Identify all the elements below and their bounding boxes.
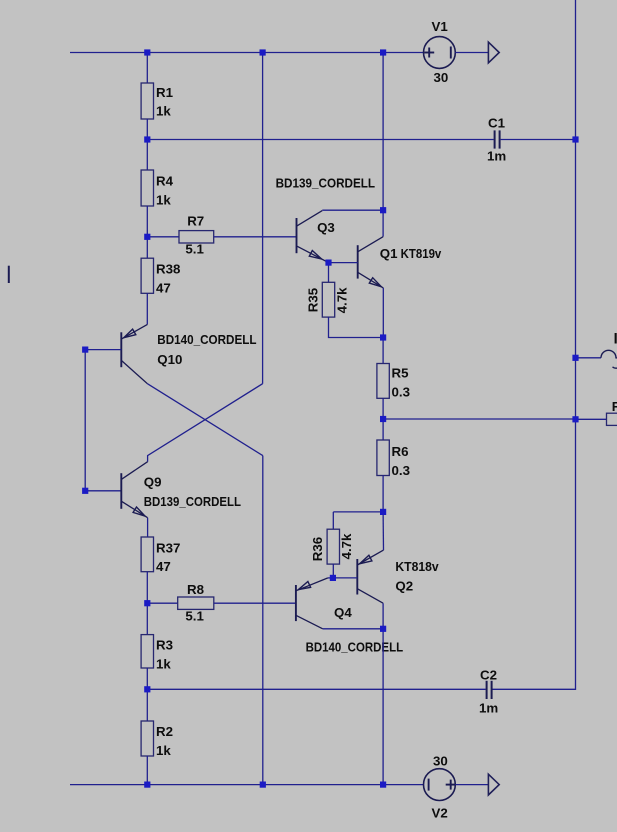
svg-text:R1: R1	[156, 85, 174, 100]
wire bottom -30V rail	[70, 784, 424, 786]
svg-text:1k: 1k	[156, 657, 171, 672]
node C1 row / right rail	[572, 136, 578, 142]
wire cross A (Q10 collector to colB)	[147, 384, 262, 456]
resistor R2	[141, 721, 153, 756]
wire right rail (top)	[575, 0, 577, 140]
node Q3 collector / colC	[380, 207, 386, 213]
svg-text:R36: R36	[310, 537, 325, 561]
svg-text:Q1: Q1	[380, 246, 398, 261]
wire Q2 collector down	[382, 603, 384, 629]
svg-text:C1: C1	[488, 116, 506, 131]
ground port (V2)	[488, 774, 499, 795]
node top rail / colA	[144, 49, 150, 55]
wire colB upper	[262, 53, 264, 384]
node Q2 emitter / R36	[380, 509, 386, 515]
node bottom rail / colB	[260, 782, 266, 788]
label L fragment at edge	[615, 333, 617, 344]
wire C1 row right	[501, 139, 576, 141]
svg-text:Q2: Q2	[395, 579, 413, 594]
resistor R3	[141, 635, 153, 668]
wire Q2 base	[333, 577, 357, 579]
node bottom rail / colA	[144, 782, 150, 788]
wire colA top	[146, 53, 148, 84]
inductor L (partial at edge)	[601, 350, 617, 368]
wire right rail (mid1)	[575, 140, 577, 358]
svg-text:R5: R5	[392, 366, 410, 381]
wire Q3 emitter to Q1 base	[329, 262, 358, 264]
wire right rail (bottom)	[492, 419, 576, 689]
svg-text:BD139_CORDELL: BD139_CORDELL	[144, 494, 241, 509]
svg-text:R35: R35	[306, 287, 321, 312]
svg-text:1k: 1k	[156, 193, 171, 208]
node C1 row / colA	[144, 136, 150, 142]
svg-text:0.3: 0.3	[392, 385, 411, 400]
svg-text:BD139_CORDELL: BD139_CORDELL	[276, 175, 376, 190]
svg-text:1k: 1k	[156, 743, 171, 758]
svg-text:R2: R2	[156, 724, 173, 739]
wire to load resistor	[576, 418, 607, 420]
svg-text:C2: C2	[480, 668, 497, 683]
svg-text:1m: 1m	[487, 149, 506, 164]
node output / right rail	[572, 416, 578, 422]
wire Q10 base	[85, 349, 121, 351]
node output / colC	[380, 416, 386, 422]
wire R7node to R38	[146, 237, 148, 258]
wire Q10 base to Q9 base	[84, 350, 86, 491]
wire top +30V rail	[70, 52, 424, 54]
node Q4 collector / colC	[380, 626, 386, 632]
wire R36 bottom	[332, 564, 334, 578]
svg-text:1m: 1m	[479, 701, 498, 716]
wire colC top	[382, 53, 384, 211]
node bottom rail / colC	[380, 782, 386, 788]
svg-text:Q3: Q3	[317, 220, 335, 235]
wire V1 to port	[455, 52, 488, 54]
node Q2 base / R36	[330, 575, 336, 581]
node top rail / colB	[260, 49, 266, 55]
svg-text:BD140_CORDELL: BD140_CORDELL	[157, 332, 256, 347]
node Q1 base	[325, 260, 331, 266]
node C2 row / colA	[144, 686, 150, 692]
wire Q4 collector row	[323, 628, 383, 630]
wire R38 to Q10 emitter	[146, 293, 148, 324]
wire right rail (mid2)	[575, 358, 577, 419]
wire R8 to Q4 base	[214, 602, 296, 604]
svg-text:4.7k: 4.7k	[335, 287, 350, 313]
svg-text:47: 47	[156, 281, 171, 296]
wire colC bottom	[382, 629, 384, 785]
svg-text:30: 30	[434, 70, 449, 85]
svg-text:5.1: 5.1	[185, 609, 204, 624]
svg-text:R38: R38	[156, 262, 180, 277]
resistor R8	[178, 597, 214, 609]
node R7 row / colA	[144, 234, 150, 240]
wire C2 row left	[147, 688, 485, 690]
transistor Q3	[297, 211, 329, 263]
svg-text:Q10: Q10	[157, 352, 182, 367]
wire output row	[383, 418, 575, 420]
wire output node to R6	[382, 419, 384, 440]
wire R37 to R8 node	[146, 572, 148, 604]
node Q9 base	[82, 488, 88, 494]
voltage source V1	[424, 37, 456, 69]
resistor R37	[141, 537, 153, 572]
wire R8node to R3	[146, 603, 148, 634]
resistor R35	[322, 282, 334, 317]
svg-text:V1: V1	[432, 19, 449, 34]
svg-text:1k: 1k	[156, 104, 171, 119]
wire colB lower	[262, 456, 264, 785]
wire R4 to R7 node	[146, 206, 148, 237]
resistor R6	[377, 440, 389, 476]
node top rail / colC	[380, 49, 386, 55]
wire V2 to port	[455, 784, 488, 786]
svg-text:0.3: 0.3	[392, 463, 411, 478]
node Q1 emitter / R35	[380, 334, 386, 340]
svg-text:5.1: 5.1	[185, 242, 204, 257]
resistor R7	[179, 231, 214, 243]
transistor Q10	[121, 324, 147, 383]
resistor R38	[141, 258, 153, 293]
resistor R5	[377, 364, 389, 399]
svg-text:R: R	[612, 399, 617, 414]
svg-text:R7: R7	[187, 214, 204, 229]
wire R36 top row	[333, 511, 383, 513]
wire C1 row left	[147, 139, 493, 141]
wire Q9 emitter to R37	[147, 518, 149, 537]
wire R7 row left	[147, 236, 179, 238]
wire R35 bottom	[329, 317, 384, 337]
svg-text:KT819v: KT819v	[401, 246, 442, 261]
ground port (V1)	[488, 42, 499, 63]
wire R2 to bottom rail	[146, 756, 148, 785]
capacitor C2	[486, 681, 488, 699]
transistor Q4	[296, 578, 328, 629]
svg-text:R6: R6	[392, 444, 409, 459]
wire R35node to R5	[382, 338, 384, 364]
resistor R (load, partial)	[607, 413, 617, 425]
wire R6 to Q2 emitter node	[382, 476, 384, 512]
svg-text:4.7k: 4.7k	[339, 533, 354, 559]
transistor Q1	[358, 237, 384, 288]
wire Q3 collector	[322, 209, 383, 211]
resistor R36	[327, 529, 339, 564]
wire stub at left edge	[8, 266, 10, 283]
wire R1 to C1 node	[146, 119, 148, 140]
node inductor / right rail	[572, 355, 578, 361]
svg-text:Q4: Q4	[334, 605, 352, 620]
svg-text:V2: V2	[432, 806, 448, 821]
wire R8 row left	[147, 602, 177, 604]
wire R7 to Q3 base	[214, 236, 297, 238]
wire Q2 emitter up	[382, 512, 384, 550]
wire to inductor L	[576, 357, 602, 359]
svg-text:47: 47	[156, 559, 171, 574]
voltage source V2	[424, 769, 456, 801]
svg-text:KT818v: KT818v	[395, 559, 439, 574]
wire R3 to C2 node	[146, 668, 148, 689]
svg-text:R8: R8	[187, 582, 204, 597]
wire R36 top stub	[332, 512, 334, 529]
wire colC junction to Q1 collector	[382, 210, 384, 237]
resistor R1	[141, 83, 153, 119]
wire Q1 emitter down	[382, 288, 384, 338]
svg-text:R37: R37	[156, 541, 180, 556]
node Q10 base	[82, 347, 88, 353]
svg-text:R3: R3	[156, 638, 173, 653]
resistor R4	[141, 170, 153, 206]
svg-text:BD140_CORDELL: BD140_CORDELL	[306, 639, 404, 654]
wire C2node to R2	[146, 689, 148, 721]
wire Q1 base node to R35	[328, 263, 330, 283]
node R8 row / colA	[144, 600, 150, 606]
svg-text:30: 30	[433, 754, 448, 769]
capacitor C1	[494, 130, 496, 148]
transistor Q2	[357, 550, 383, 603]
svg-text:Q9: Q9	[144, 475, 162, 490]
wire R5 to output node	[382, 398, 384, 419]
wire C1node to R4	[146, 140, 148, 171]
wire Q9 base	[85, 490, 121, 492]
transistor Q9	[121, 462, 147, 518]
svg-text:R4: R4	[156, 174, 174, 189]
wire Q4 emitter to node	[328, 577, 333, 579]
wire cross B (colB to Q9 collector)	[148, 384, 263, 462]
